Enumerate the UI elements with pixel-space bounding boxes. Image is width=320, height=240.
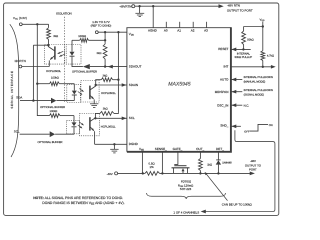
arrow AUTO into pin xyxy=(231,78,236,82)
light arrows U1 xyxy=(58,51,65,56)
svg-text:INTERNAL PULLDOWN: INTERNAL PULLDOWN xyxy=(244,76,273,79)
arrow SCL direction xyxy=(122,117,127,121)
junction R11 / bus xyxy=(199,172,201,174)
svg-text:A3: A3 xyxy=(204,28,208,32)
svg-text:ISOLATION: ISOLATION xyxy=(56,11,71,15)
junction VCC rail xyxy=(36,23,38,25)
svg-text:DET_: DET_ xyxy=(216,147,224,151)
svg-text:100kΩ: 100kΩ xyxy=(51,76,59,79)
svg-text:SHD_: SHD_ xyxy=(220,124,228,128)
svg-text:I2CRTN: I2CRTN xyxy=(15,59,26,63)
switch S1 ON/OFF xyxy=(250,124,268,131)
svg-text:-48V: -48V xyxy=(107,172,113,176)
pin stub A0 xyxy=(165,22,167,28)
svg-text:3kΩ: 3kΩ xyxy=(103,107,108,110)
node U2 collector xyxy=(95,84,97,86)
node U3 collector xyxy=(94,117,96,119)
junction VDD node xyxy=(262,25,264,27)
wire SCL buffer to U3 LED xyxy=(55,133,74,135)
wire supply to VDD pin xyxy=(98,31,127,33)
LED U3 xyxy=(72,116,77,135)
wire VCC to 3k pullup R1 xyxy=(22,23,48,25)
resistor R2 100k xyxy=(72,38,105,42)
terminal -48VRTN xyxy=(132,5,135,8)
arrow -48VRTN to port xyxy=(219,4,224,8)
channel underbrace xyxy=(147,193,226,199)
svg-text:SCL: SCL xyxy=(14,129,20,133)
terminal -48V input xyxy=(115,172,118,175)
optocoupler U3 receiver box xyxy=(80,114,100,136)
junction D1 / bus xyxy=(217,172,219,174)
junction supply rail x118 xyxy=(117,31,119,33)
junction DGND xyxy=(113,143,115,145)
wire RESET xyxy=(231,48,251,50)
svg-text:OPTIONAL BUFFER: OPTIONAL BUFFER xyxy=(38,141,63,144)
svg-text:INTERNAL PULLDOWN: INTERNAL PULLDOWN xyxy=(244,89,273,92)
resistor R3 3k SDAOUT pullup xyxy=(103,32,107,66)
svg-text:1N4448: 1N4448 xyxy=(222,161,232,164)
svg-text:DGND RANGE IS BETWEEN VEE AND: DGND RANGE IS BETWEEN VEE AND (AGND + 4V… xyxy=(42,201,124,205)
phototransistor U1 xyxy=(48,45,55,66)
terminal I2CRTN xyxy=(19,65,22,68)
wire SCL to IC xyxy=(95,117,127,119)
junction VCC rail / R4 100k xyxy=(36,83,38,85)
ground chassis at -48VRTN xyxy=(135,6,144,16)
isolation boundary dashed line xyxy=(63,17,65,103)
junction R3 / SDAOUT xyxy=(104,65,106,67)
svg-text:(REF TO DGND): (REF TO DGND) xyxy=(91,25,112,28)
svg-text:OPTIONAL BUFFER: OPTIONAL BUFFER xyxy=(72,70,97,73)
svg-text:HCPL0601L: HCPL0601L xyxy=(101,92,116,95)
svg-text:OUTPUT TO: OUTPUT TO xyxy=(245,163,262,167)
optocoupler U2 LED box xyxy=(67,84,81,102)
svg-text:OUTPUT TO PORT: OUTPUT TO PORT xyxy=(227,9,253,13)
junction rail / AGND xyxy=(152,5,154,7)
resistor R4 100k xyxy=(37,82,74,86)
wire SHD_ xyxy=(231,125,241,127)
svg-text:1kΩ: 1kΩ xyxy=(207,163,212,166)
terminal 1.6V-3.7V supply xyxy=(95,31,98,34)
arrow SDAIN direction xyxy=(122,83,127,87)
svg-text:SDAIN: SDAIN xyxy=(129,83,138,87)
svg-text:INT: INT xyxy=(223,65,228,69)
svg-text:100kΩ: 100kΩ xyxy=(78,35,86,38)
svg-text:SENSE_: SENSE_ xyxy=(155,147,167,151)
wire U2 collector to R5 xyxy=(96,80,102,85)
wire VDD supply stub xyxy=(262,22,264,27)
optocoupler U1 receiver box xyxy=(45,45,65,65)
phototransistor U2 xyxy=(90,85,96,104)
wire SDAOUT xyxy=(90,66,127,68)
svg-text:OSC_IN: OSC_IN xyxy=(217,103,228,107)
resistor R5 3k SDAIN pullup xyxy=(101,78,118,82)
light arrows U3 xyxy=(78,122,84,128)
terminal VCC xyxy=(19,23,22,26)
svg-text:(SIGNAL MODE): (SIGNAL MODE) xyxy=(244,94,264,97)
LED U1 xyxy=(70,40,83,66)
junction RESET / R8 xyxy=(242,48,244,50)
wire SDA buffer to U2 LED xyxy=(56,100,74,102)
wire -48VRTN rail xyxy=(135,5,220,7)
pin stub A2 xyxy=(192,22,194,28)
svg-text:A0: A0 xyxy=(164,28,168,32)
wire SENSE_ pin stub xyxy=(161,152,163,174)
junction pullup rail / R5 xyxy=(117,79,119,81)
svg-text:AGND: AGND xyxy=(148,28,158,32)
wire INT xyxy=(231,66,272,68)
svg-text:SDA: SDA xyxy=(16,95,22,99)
buffer SDA (optional) xyxy=(51,98,56,104)
svg-text:SOT-223: SOT-223 xyxy=(180,187,192,191)
svg-text:N.C.: N.C. xyxy=(244,103,250,107)
label R10 0.5ohm 1% xyxy=(149,161,155,169)
svg-text:AUTO: AUTO xyxy=(220,78,229,82)
arrow SHD_ into pin xyxy=(231,124,236,128)
wire -48V input xyxy=(118,172,145,174)
label INTERNAL 50k PULLUP xyxy=(235,53,253,59)
label 1.6V TO 3.7V (REF TO DGND) xyxy=(91,20,112,28)
label -48V RTN OUTPUT TO PORT xyxy=(227,3,253,12)
svg-text:SCL: SCL xyxy=(129,116,135,120)
figure background xyxy=(0,0,280,217)
svg-text:1.6V TO 3.7V: 1.6V TO 3.7V xyxy=(92,20,109,24)
arrow 1 of 4 channels xyxy=(201,210,206,214)
svg-text:A2: A2 xyxy=(191,28,195,32)
svg-text:(MANUAL MODE): (MANUAL MODE) xyxy=(244,81,266,84)
svg-text:GATE_: GATE_ xyxy=(173,147,183,151)
svg-text:4.7kΩ: 4.7kΩ xyxy=(267,54,274,57)
wire pullup rail xyxy=(117,32,119,113)
svg-text:OFF: OFF xyxy=(244,130,250,133)
svg-text:NOTE: ALL SIGNAL PINS ARE REFE: NOTE: ALL SIGNAL PINS ARE REFERENCED TO … xyxy=(33,196,123,200)
resistor R6 100k xyxy=(49,114,74,118)
diode D1 1N4448 xyxy=(216,152,221,174)
svg-text:MAX5945: MAX5945 xyxy=(168,82,191,88)
svg-text:SERIAL INTERFACE: SERIAL INTERFACE xyxy=(10,70,14,108)
svg-text:ON: ON xyxy=(269,124,273,127)
arrow MIDSPAN into pin xyxy=(231,90,236,94)
svg-text:50kΩ PULLUP: 50kΩ PULLUP xyxy=(235,56,253,59)
wire MIDSPAN xyxy=(231,91,242,93)
svg-text:-48V RTN: -48V RTN xyxy=(227,3,240,7)
phototransistor U3 xyxy=(90,117,96,144)
wire U1 collector to SDA rail xyxy=(33,44,48,46)
svg-text:HCPL0601L: HCPL0601L xyxy=(101,125,116,128)
wire I2CRTN to U1 emitter xyxy=(22,66,50,68)
wire VCC rail to 100k resistors xyxy=(37,24,49,115)
wire -48V bus xyxy=(160,172,250,174)
svg-text:3kΩ: 3kΩ xyxy=(53,35,58,38)
label INTERNAL PULLDOWN (MANUAL MODE) xyxy=(244,76,273,84)
transistor Q1 FDT602 MOSFET xyxy=(172,152,190,174)
arrow RESET into pin xyxy=(231,48,236,52)
wire VCC to resistor R1 xyxy=(48,24,50,28)
arrow OSC_IN into pin xyxy=(231,103,236,107)
junction INT / R9 xyxy=(262,66,264,68)
resistor R9 4.7k INT pullup xyxy=(261,27,265,67)
junction R2 / supply rail xyxy=(104,31,106,42)
svg-text:-48VRTN: -48VRTN xyxy=(119,4,131,8)
pin stub A3 xyxy=(206,22,208,28)
svg-text:1 OF 4 CHANNELS: 1 OF 4 CHANNELS xyxy=(173,211,199,215)
resistor R1 3k xyxy=(47,28,51,45)
optocoupler U2 receiver box xyxy=(81,81,99,103)
resistor R10 0.5 sense xyxy=(145,172,160,176)
LED U2 xyxy=(72,84,77,101)
svg-text:1%: 1% xyxy=(150,165,155,169)
optocoupler U1 LED box xyxy=(66,45,81,65)
optocoupler U3 LED box xyxy=(67,120,80,133)
svg-text:PORT: PORT xyxy=(249,168,257,172)
IC U4 MAX5945 body xyxy=(127,27,231,152)
wire AUTO xyxy=(231,79,242,81)
svg-text:RESET: RESET xyxy=(218,47,228,51)
ground U2 emitter DGND xyxy=(90,104,98,108)
pointer line CAN BE UP TO 100k xyxy=(205,172,228,201)
wire SCL input xyxy=(20,133,50,135)
svg-text:3kΩ: 3kΩ xyxy=(102,75,107,78)
svg-text:OUT_: OUT_ xyxy=(196,147,204,151)
svg-text:DGND: DGND xyxy=(129,142,139,146)
arrow SDAOUT direction xyxy=(108,65,113,69)
wire U1 collector to SDA xyxy=(32,45,34,100)
wire AGND pin xyxy=(152,6,154,28)
junction rail / chassis ground xyxy=(138,5,140,7)
figure border frame xyxy=(4,3,279,215)
note text xyxy=(33,196,124,205)
light arrows U2 xyxy=(78,89,84,95)
label Q1 FDT602 RON 120m SOT-223 xyxy=(178,180,193,191)
wire SDAIN xyxy=(96,84,127,86)
buffer SCL (optional) xyxy=(50,131,55,137)
wire SDA xyxy=(20,100,51,102)
svg-text:A1: A1 xyxy=(177,28,181,32)
label INTERNAL PULLDOWN (SIGNAL MODE) xyxy=(244,89,273,97)
junction R10 / SENSE_ xyxy=(161,172,163,174)
svg-text:HCPL0600L: HCPL0600L xyxy=(46,70,61,73)
serial interface brace xyxy=(10,24,19,157)
junction -48V / VEE / R10 xyxy=(142,172,144,174)
ground DGND xyxy=(110,144,118,153)
buffer SDAOUT (optional) xyxy=(83,64,90,69)
node U1 collector xyxy=(47,44,49,46)
arrow -48V output to port xyxy=(250,172,255,176)
wire U3 collector to R7 xyxy=(95,113,100,118)
wire VDD to R8 xyxy=(244,26,263,28)
wire OSC_IN xyxy=(231,104,242,106)
svg-text:-48V: -48V xyxy=(250,159,256,163)
label -48V OUTPUT TO PORT xyxy=(245,159,262,172)
svg-text:MIDSPAN: MIDSPAN xyxy=(215,90,229,94)
svg-text:50kΩ: 50kΩ xyxy=(247,38,253,41)
wire DGND xyxy=(95,143,127,145)
resistor R11 1k OUT_ xyxy=(199,152,203,174)
svg-text:CAN BE UP TO 100kΩ: CAN BE UP TO 100kΩ xyxy=(222,203,253,207)
arrow INT output xyxy=(271,65,276,69)
svg-text:SDAOUT: SDAOUT xyxy=(129,65,142,69)
resistor R7 3k SCL pullup xyxy=(100,112,119,116)
channel boundary line xyxy=(205,130,275,211)
svg-text:OPTIONAL BUFFER: OPTIONAL BUFFER xyxy=(40,106,65,109)
node SDA / U1 collector junction xyxy=(32,99,34,101)
svg-text:3kΩ: 3kΩ xyxy=(97,52,102,55)
resistor R8 50k RESET pullup xyxy=(242,27,246,50)
wire VEE pin stub xyxy=(141,152,143,174)
pin stub A1 xyxy=(179,22,181,28)
